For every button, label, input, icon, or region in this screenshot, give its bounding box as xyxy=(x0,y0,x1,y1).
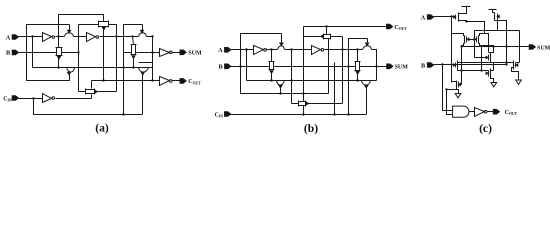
outer gate loop left (a) xyxy=(27,25,70,81)
gate arrow of B2 (a) xyxy=(141,30,144,33)
input port Cin (a) xyxy=(12,96,18,101)
TG2 bottom stem (b) xyxy=(271,74,273,81)
M7 bottom arm (c) xyxy=(512,68,519,81)
wire TG4 right to SUM port (b) xyxy=(360,66,387,68)
vertical A feed (c) xyxy=(451,17,453,83)
TG1 bottom gate stem (a) xyxy=(103,30,105,81)
pass transistor bump B4 (a) xyxy=(139,68,149,73)
TG4 top stem (a) xyxy=(133,37,134,45)
TG3 left arrow (b) xyxy=(321,35,324,38)
node dot x446 (c) xyxy=(445,88,447,90)
M9 bottom arm (c) xyxy=(457,89,459,94)
wire B row (a) xyxy=(19,52,57,54)
M1 arms and vdd (c) xyxy=(459,7,467,14)
M6 top arm (c) xyxy=(458,62,507,63)
wire Cin inverter out (a) xyxy=(56,98,92,100)
node dot x348.2 Cin (b) xyxy=(347,113,349,115)
pass transistor bump B1 (b) xyxy=(278,46,285,50)
wire TG1 left (a) xyxy=(79,24,99,26)
SUM row wire (c) xyxy=(462,46,530,48)
transistor M2 (c) xyxy=(494,13,496,21)
M5 top arm (c) xyxy=(489,47,494,54)
inverter I1 (b) xyxy=(254,46,264,55)
node dot x123.5 P1 (a) xyxy=(122,66,124,68)
transistor M1 (c) xyxy=(458,13,460,22)
gate arrow of B1 (a) xyxy=(68,30,71,33)
input port A (b) xyxy=(225,48,231,53)
TG3 right arrow (a) xyxy=(95,90,98,93)
wire I1 out (b) xyxy=(267,49,278,51)
node dot x59 P1 (a) xyxy=(57,66,59,68)
output port SUM (c) xyxy=(529,45,535,50)
node dot x334 Cin (b) xyxy=(333,113,335,115)
node dot SUM x461 (c) xyxy=(460,45,462,47)
node dot x348.2 SUM row (b) xyxy=(347,65,349,67)
M6 bottom node vertical (c) xyxy=(461,47,463,85)
svg-text:B: B xyxy=(6,50,10,57)
gate stem B2 (b) xyxy=(367,39,369,43)
node dot x271.5 P1 (b) xyxy=(270,79,272,81)
node dot Cin tap (a) xyxy=(32,97,34,99)
link vertical x481.6 (c) xyxy=(481,46,483,71)
Cin inverter (a) xyxy=(43,94,52,103)
svg-text:(c): (c) xyxy=(479,122,492,135)
transmission gate TG5 (b) xyxy=(299,102,306,106)
node dot x240.3 B row (b) xyxy=(239,65,241,67)
XOR feedback wire P1 (a) xyxy=(33,67,153,69)
wire AND to inverter (c) xyxy=(470,111,475,113)
gate rail H30 (c) xyxy=(475,30,520,32)
gate arrow B2 (b) xyxy=(366,43,369,46)
svg-text:(a): (a) xyxy=(95,121,109,134)
pass transistor bump B4 (b) xyxy=(362,81,371,86)
TG2 bottom arrow (a) xyxy=(58,56,61,59)
wire TG4 right to SUM inverter (a) xyxy=(136,52,160,54)
output port SUM (b) xyxy=(387,64,393,69)
transistor M5 (c) xyxy=(490,54,492,62)
pass transistor bump B2 (a) xyxy=(139,33,147,37)
node dot SUM x493.8 (c) xyxy=(492,45,494,47)
vertical x348.4 (b) xyxy=(348,67,350,115)
svg-text:SUM: SUM xyxy=(188,51,202,57)
node dot bottom rail (a) xyxy=(122,113,124,115)
wire vertical x123.5 lower (a) xyxy=(123,53,125,115)
short wire y62.6 (a) xyxy=(139,62,153,64)
vertical x342.5 (b) xyxy=(342,37,344,104)
M6 bottom arm (c) xyxy=(458,69,462,71)
wire node to AND input2 (c) xyxy=(447,90,453,115)
TG4 bottom arrow (a) xyxy=(132,56,135,59)
TG3 bottom stem (a) xyxy=(91,95,93,99)
transistor M9 (c) xyxy=(456,81,458,89)
svg-text:SUM: SUM xyxy=(395,65,409,71)
vertical x334 (b) xyxy=(334,63,336,115)
inverter I1 (a) xyxy=(43,33,52,42)
svg-text:SUM: SUM xyxy=(537,45,550,51)
node dot x152 COUT (a) xyxy=(151,79,153,81)
node dot x357.6 P1 (b) xyxy=(356,79,358,81)
node dot A tap (c) xyxy=(450,15,452,17)
node dot x271.5 (b) xyxy=(270,48,272,50)
gate stem B1 (b) xyxy=(281,34,283,43)
node dot x325.9 COUT (b) xyxy=(325,25,327,27)
wire A row left (a) xyxy=(19,36,43,38)
node dot x133.5 P1 (a) xyxy=(132,66,134,68)
wire B to AND input (c) xyxy=(443,65,453,111)
pass transistor bump B3 (a) xyxy=(67,68,75,73)
node dot x376.3 SUM (b) xyxy=(375,65,377,67)
output port SUM (a) xyxy=(180,50,186,55)
node dot x357.6 (b) xyxy=(356,48,358,50)
transmission gate TG4 (a) xyxy=(132,45,136,55)
svg-text:B: B xyxy=(421,62,425,69)
node dot x152 A row (a) xyxy=(151,35,153,37)
TG5 left wire (b) xyxy=(292,103,299,105)
wire B row (b) xyxy=(231,66,270,68)
M9 arm to AND (c) xyxy=(447,89,459,91)
transistor M4 (c) xyxy=(478,36,480,44)
pass transistor bump B3 (b) xyxy=(277,81,285,86)
node dot x103.8 COUT (a) xyxy=(102,79,104,81)
wire B-ext to TG4 (a) xyxy=(124,52,132,54)
transistor M6 (c) xyxy=(457,61,459,70)
input port A (a) xyxy=(12,35,18,40)
wire B row middle (b) xyxy=(274,66,356,68)
carry output wire COUT (b) xyxy=(304,26,387,28)
wire after B2 (b) xyxy=(372,50,377,81)
M2 drain arm (c) xyxy=(495,21,507,65)
gate arrow B1 (b) xyxy=(280,43,283,46)
wire A row left (b) xyxy=(231,49,254,51)
gate stem of B1 (a) xyxy=(69,25,71,31)
output port Cout (b) xyxy=(387,24,393,29)
TG4 bottom arrow (b) xyxy=(356,72,359,75)
transmission gate TG2 (a) xyxy=(57,48,62,56)
M5 gate wire (c) xyxy=(475,57,489,59)
pass transistor bump B1 (a) xyxy=(65,33,74,37)
M4 top arm (c) xyxy=(479,34,489,53)
node dot B end (c) xyxy=(505,63,507,65)
wire A row right (a) xyxy=(100,36,139,38)
node dot x152 SUM row (a) xyxy=(151,51,153,53)
gate rail right stem (c) xyxy=(519,31,521,63)
SUM inverter (a) xyxy=(160,49,170,57)
node dot x59 on A row (a) xyxy=(57,35,59,37)
TG3 top gate stem (a) xyxy=(91,81,93,89)
TG2 top stem (b) xyxy=(271,50,273,62)
vdd bar M1 (c) xyxy=(462,6,471,8)
M8 bottom arm (c) xyxy=(491,78,494,83)
output port Cout (c) xyxy=(493,109,499,114)
wire to SUM port (a) xyxy=(173,52,181,54)
M9 top arm (c) xyxy=(452,81,457,82)
wire vertical x33 (a) xyxy=(32,37,34,68)
node dot x303.4 P2 (b) xyxy=(302,92,304,94)
node dot x281 P2 (b) xyxy=(279,92,281,94)
AND gate (c) xyxy=(453,106,469,117)
input port Cin (b) xyxy=(225,112,231,117)
node dot x461.3 y70.1 (c) xyxy=(460,69,462,71)
wire A row (c) xyxy=(434,16,456,18)
top rect wire (a) xyxy=(59,15,104,48)
M7 top arm (c) xyxy=(507,62,514,64)
wire B row (c) xyxy=(434,64,507,66)
TG3 right wire (b) xyxy=(331,36,343,38)
node dot x116.5 A row (a) xyxy=(115,35,117,37)
wire after B2 (a) xyxy=(147,36,153,38)
Cout inverter (c) xyxy=(475,108,485,117)
svg-text:B: B xyxy=(218,64,222,71)
node dot x246.4 (b) xyxy=(245,48,247,50)
vertical x246.4 (b) xyxy=(246,50,248,81)
ground G3 (c) xyxy=(516,80,522,84)
input port B (a) xyxy=(12,50,18,55)
ground G2 (c) xyxy=(491,83,497,87)
TG1 bottom gate arrow (a) xyxy=(102,27,105,30)
M2 gate stem (c) xyxy=(497,20,499,31)
transmission gate TG1 (a) xyxy=(99,22,109,27)
B4 gate arrow (b) xyxy=(365,85,368,88)
svg-text:A: A xyxy=(218,47,223,54)
wire A row right (b) xyxy=(325,49,363,51)
transmission gate TG3 (b) xyxy=(324,35,331,39)
transmission gate TG2 (b) xyxy=(270,62,274,70)
node dot x291.4 P1 (b) xyxy=(290,79,292,81)
Cin row wire (b) xyxy=(231,114,367,116)
M9 gate wire (c) xyxy=(459,84,462,86)
node dot A-tap x33 (a) xyxy=(31,35,33,37)
vertical x291.4 (b) xyxy=(291,50,293,104)
vertical x303.4 (b) xyxy=(303,27,305,102)
TG3 left wire (b) xyxy=(304,36,321,38)
wire to I2 (b) xyxy=(285,49,312,51)
TG3 left stub (a) xyxy=(79,91,86,93)
B3 gate arrow (b) xyxy=(279,85,282,88)
transistor M3 (c) xyxy=(464,36,466,44)
gate rail left stem (c) xyxy=(474,31,476,58)
node dot x481.6 y70.1 (c) xyxy=(480,69,482,71)
TG4 top stem (b) xyxy=(357,50,359,62)
node dot M1 drain (c) xyxy=(465,20,467,22)
inverter I2 (a) xyxy=(87,33,96,42)
wire TG2 right to node (a) xyxy=(62,52,79,54)
TG2 bottom stem (a) xyxy=(58,59,60,68)
wire to Cout port (a) xyxy=(173,80,181,82)
TG3 bottom stem (b) xyxy=(328,39,330,45)
B3 gate arrow (a) xyxy=(68,72,71,75)
M3 bottom arm (c) xyxy=(462,44,465,47)
ground G1 (c) xyxy=(455,94,461,98)
TG2 bottom arrow (b) xyxy=(270,71,273,74)
node dot B tap (c) xyxy=(441,63,443,65)
TG5 right wire (b) xyxy=(309,103,343,105)
TG3 right wire (a) xyxy=(98,91,117,93)
vertical x328.5 TG3 bottom gate (b) xyxy=(328,39,330,94)
node dot SUM x506 (c) xyxy=(505,45,507,47)
wire vertical x78.5 (a) xyxy=(78,25,80,92)
inverter I2 (b) xyxy=(312,46,321,55)
gate loop rect2 (b) xyxy=(349,39,368,67)
TG4 bottom stem (b) xyxy=(357,75,359,81)
transmission gate TG3 (a) xyxy=(86,90,95,94)
transistor M8 (c) xyxy=(490,69,492,78)
wire M1 drain to pair (c) xyxy=(467,22,485,34)
TG5 right arrow (b) xyxy=(306,102,309,105)
wire y70.1 (c) xyxy=(462,70,489,72)
gate loop rect1 (b) xyxy=(241,34,282,67)
M2 source arm (c) xyxy=(493,10,495,13)
B4 gate stem (b) xyxy=(366,89,368,115)
wire to Cout port (c) xyxy=(488,111,494,113)
svg-text:(b): (b) xyxy=(304,122,318,135)
node dot x303 Cin (b) xyxy=(302,113,304,115)
TG4 bottom stem (a) xyxy=(133,59,135,68)
COUT inverter (a) xyxy=(160,77,170,86)
input port B (b) xyxy=(225,64,231,69)
wire bump B1 to I2 (a) xyxy=(74,36,87,38)
node dot x132.7 A row (a) xyxy=(131,35,133,37)
node dot pair gate (c) xyxy=(473,38,475,40)
wire I1 out (a) xyxy=(56,36,65,38)
M7 gate link (c) xyxy=(516,62,520,64)
B4 gate arrow (a) xyxy=(141,72,144,75)
output port Cout (a) xyxy=(180,79,186,84)
TG5 bottom stem (b) xyxy=(303,106,305,115)
wire TG1 right (a) xyxy=(109,25,117,92)
gate loop rect2 (a) xyxy=(124,25,143,53)
wire Cin row (a) xyxy=(19,98,43,100)
node dot x342.5 (b) xyxy=(341,48,343,50)
node dot x78.5 B row (a) xyxy=(77,51,79,53)
pair gate wire (c) xyxy=(467,39,477,41)
input port A (c) xyxy=(427,15,433,20)
M1 drain arm (c) xyxy=(459,21,467,22)
vdd bar M2 (c) xyxy=(489,9,497,11)
wire P2 (b) xyxy=(241,67,329,94)
M8 top arm (c) xyxy=(491,70,494,71)
bottom rail wire (a) xyxy=(34,99,143,115)
svg-text:A: A xyxy=(421,14,426,21)
svg-text:A: A xyxy=(6,34,11,41)
transistor M7 (c) xyxy=(513,61,515,70)
M4 bottom arm (c) xyxy=(479,44,494,47)
B3 gate stem (b) xyxy=(280,89,282,94)
wire vertical x152 (a) xyxy=(152,37,154,81)
TG3 top stem (b) xyxy=(326,27,328,35)
gate stem of B2 (a) xyxy=(142,25,144,31)
M5 bottom arm (c) xyxy=(491,62,494,71)
M3 top arm (c) xyxy=(452,34,465,36)
B4 gate stem (a) xyxy=(142,75,144,115)
pass transistor bump B2 (b) xyxy=(363,46,372,50)
input port B (c) xyxy=(427,63,433,68)
carry line COUT (a) xyxy=(92,80,160,82)
wire P1 (b) xyxy=(247,80,377,82)
transmission gate TG4 (b) xyxy=(356,62,360,71)
node dot x291.4 (b) xyxy=(290,48,292,50)
node dot x506 y62.4 (c) xyxy=(505,61,507,63)
